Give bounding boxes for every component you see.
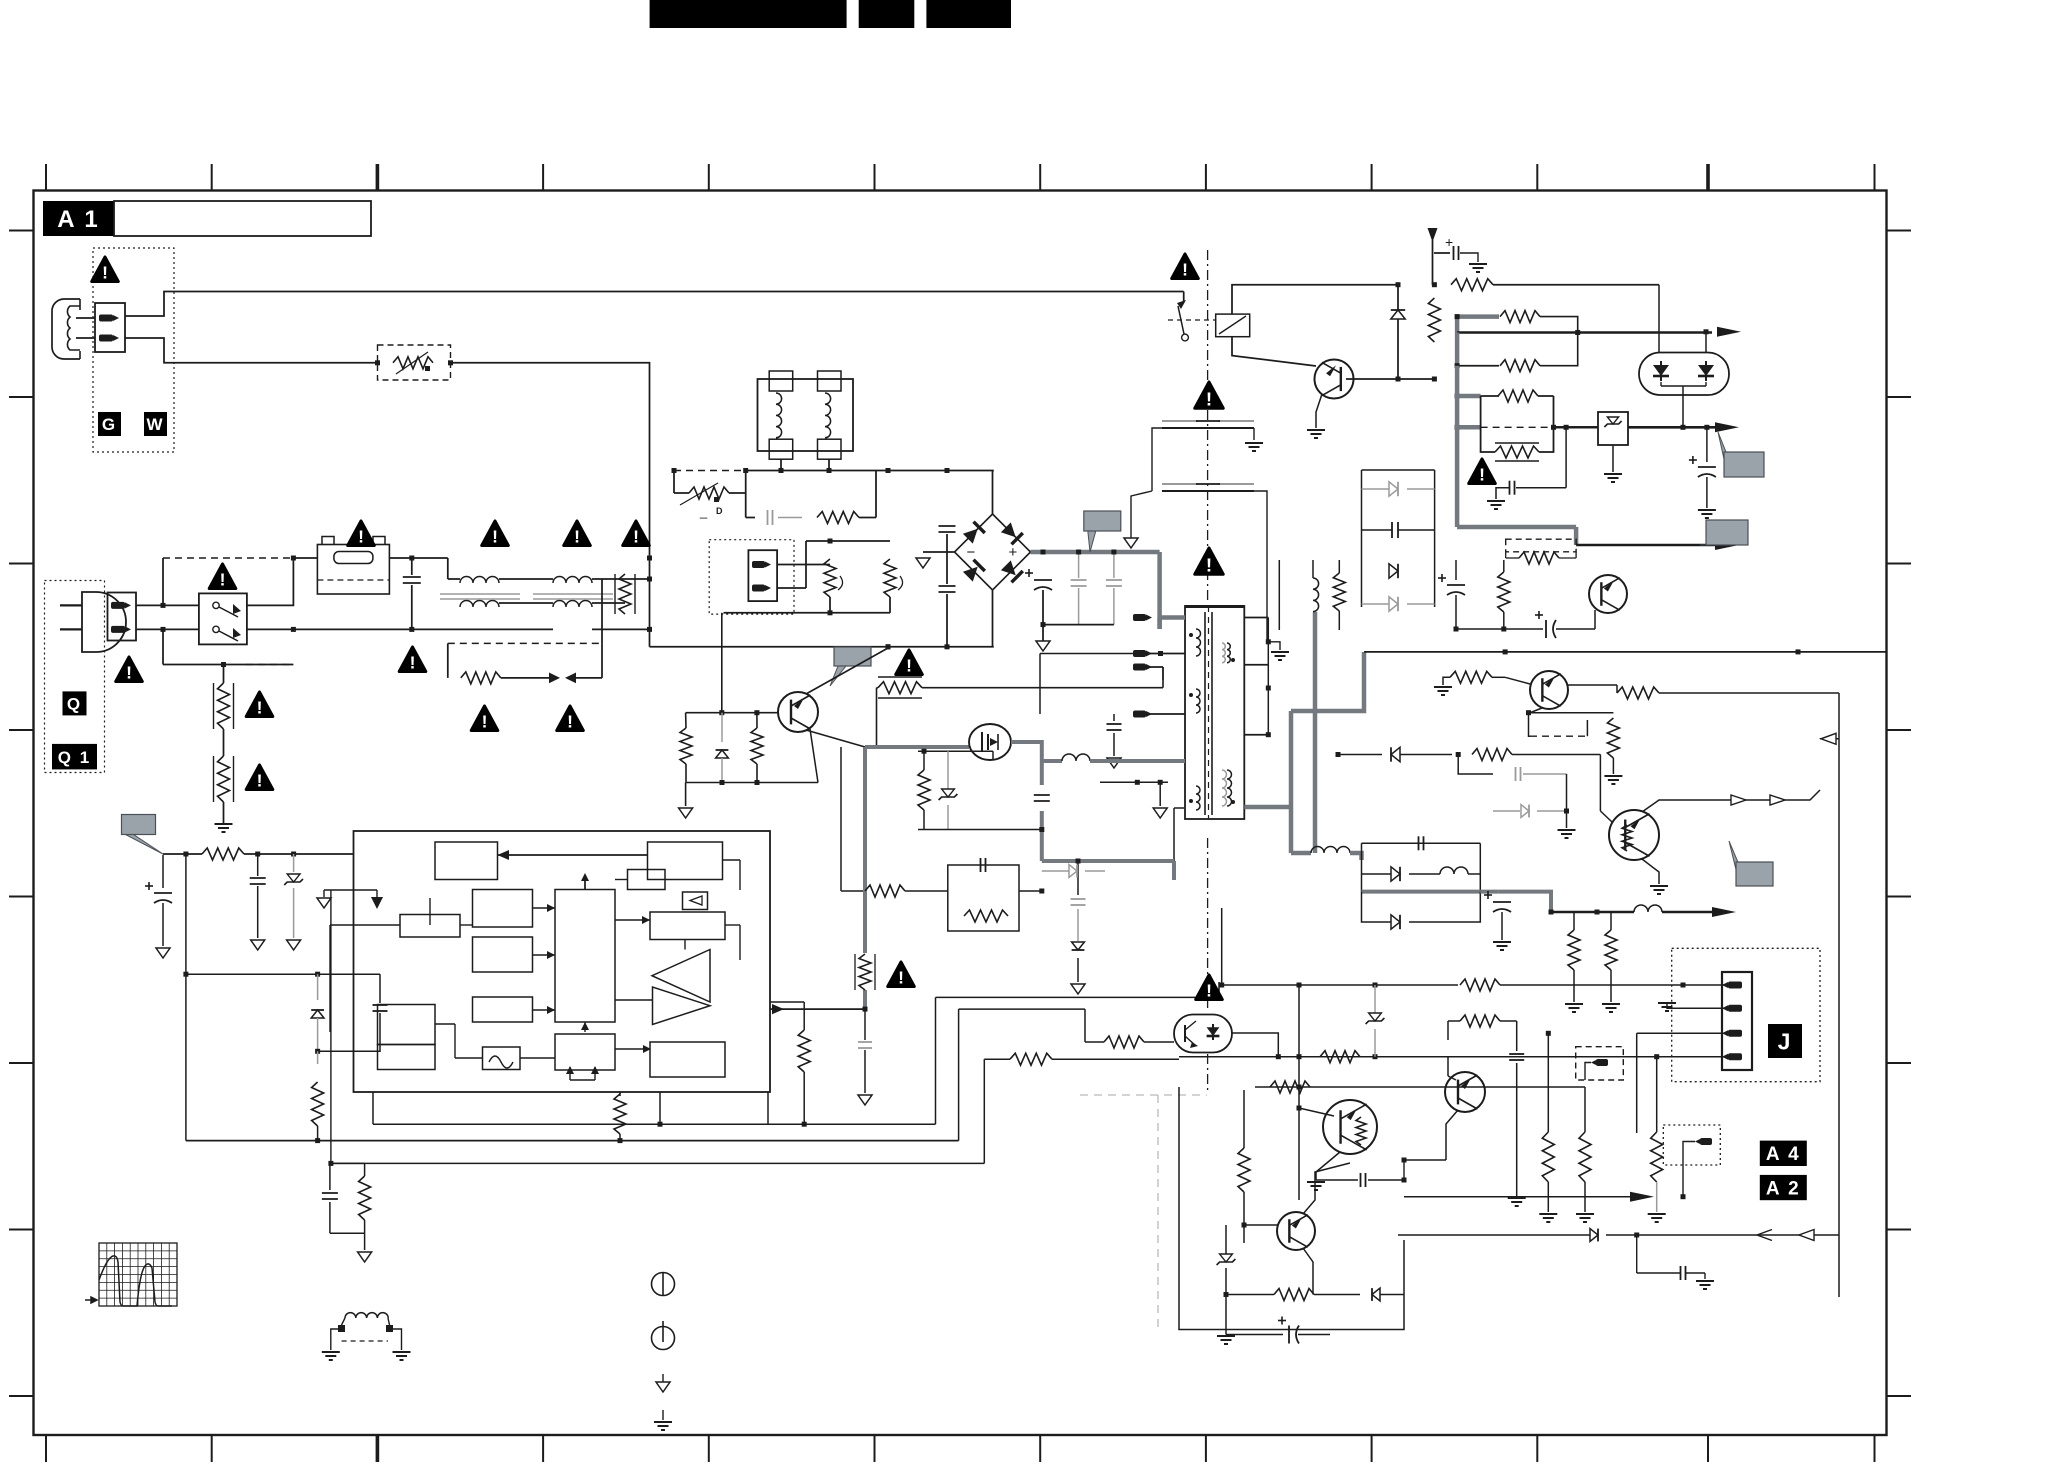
out arrows mid right — [1731, 795, 1746, 805]
Q2 drain thick path — [1011, 742, 1042, 761]
standby switch contact — [1177, 300, 1186, 309]
bridge minus stub — [923, 551, 955, 553]
warning triangle regulator — [1469, 459, 1496, 484]
aux diode cap chain — [1077, 861, 1079, 895]
Q5 wires — [1599, 755, 1601, 812]
IC pin wires left — [330, 898, 400, 925]
primary bottom rail — [650, 646, 994, 648]
Y-cap 2 on barrier — [1162, 483, 1198, 485]
bottom long rail 1 — [186, 1140, 959, 1142]
label Q1 — [52, 744, 97, 770]
resistor row 2 — [1455, 333, 1460, 366]
oscillogram grid — [99, 1243, 177, 1306]
controller IC U1 outline — [354, 831, 771, 1092]
wire switch pole B — [247, 628, 412, 630]
J dotted box — [1672, 948, 1820, 1081]
ladder stubs — [1340, 469, 1362, 471]
Vcc electrolytic — [162, 855, 164, 888]
degauss connector plug — [95, 303, 125, 352]
T1 secondary thick tap — [1244, 805, 1291, 810]
A4 dotted connector — [1663, 1125, 1720, 1165]
svg-text:!: ! — [1206, 388, 1212, 409]
label Q — [63, 691, 87, 715]
IC blocks left — [473, 890, 533, 928]
bleed resistor PTC2 — [223, 729, 225, 756]
T1 secondary windings — [1222, 643, 1225, 663]
Q collector wire — [1346, 378, 1398, 380]
bridge feed — [993, 471, 995, 515]
bottom common-mode choke — [345, 1313, 388, 1318]
label G — [98, 412, 121, 436]
T1 primary windings — [1196, 629, 1201, 656]
transistor Q6 — [1445, 1072, 1485, 1112]
Q6 collector resistor — [1448, 1020, 1460, 1022]
out cap elect — [1480, 890, 1498, 894]
warning triangle filter 1 — [471, 706, 498, 731]
line filter choke LF1 — [447, 558, 449, 579]
gate drive RC box — [840, 747, 842, 891]
svg-text:G: G — [102, 415, 117, 434]
warning triangle switch — [209, 564, 236, 589]
Q6 emitter down — [1446, 1110, 1458, 1160]
feedback resistor below IC — [614, 1094, 626, 1134]
discharge resistor across line — [619, 574, 631, 614]
svg-text:D: D — [716, 506, 723, 516]
warning triangle barrier mid — [1195, 382, 1224, 408]
IC right blocks — [650, 912, 725, 940]
relay catch diode — [1397, 285, 1399, 295]
T1 right side taps — [1244, 617, 1268, 619]
fuse rail — [163, 557, 293, 559]
warning triangle choke1 — [482, 521, 509, 546]
svg-text:Q: Q — [67, 695, 82, 714]
regulator resistor pair — [1457, 394, 1481, 399]
filter caps on doubler — [946, 471, 948, 525]
transistor Q4 — [1530, 671, 1568, 709]
warning triangle AC inlet — [116, 657, 143, 682]
Q1 collector wire — [806, 648, 888, 694]
warning triangle discharge — [623, 521, 650, 546]
Q2 snubber RC — [918, 750, 993, 752]
J pin2 ground — [1667, 1002, 1728, 1008]
standby rail drop to oval — [1658, 285, 1660, 353]
J connector body — [1722, 972, 1752, 1070]
legend earth — [662, 1410, 664, 1420]
sense thick line — [865, 745, 969, 749]
transistor Q relay-driver — [1315, 360, 1354, 399]
IC bottom pin wire — [659, 1092, 661, 1124]
left vertical feeder — [330, 890, 332, 1163]
cluster outline box — [1179, 1087, 1404, 1330]
warning triangle PTC2 — [246, 765, 273, 790]
x=649 vertical to bottom rail — [647, 556, 652, 561]
aux cap+ horizontal — [1545, 620, 1547, 638]
Q4 emitter — [1529, 708, 1543, 713]
spark gap + resistor — [447, 643, 449, 678]
X-capacitor C1 — [411, 558, 413, 575]
gray flag DC bus — [1088, 531, 1096, 552]
svg-text:A 4: A 4 — [1766, 1144, 1801, 1165]
bus junction dots — [1455, 314, 1460, 319]
T1 left wires — [1146, 617, 1161, 619]
gray flag driver — [830, 666, 846, 686]
snubber ladder box — [1362, 469, 1435, 471]
Q7 wires — [1299, 1108, 1334, 1116]
svg-text:!: ! — [1206, 981, 1212, 1001]
svg-text:!: ! — [257, 698, 263, 718]
out3 thick arrow — [1576, 544, 1715, 547]
svg-text:!: ! — [898, 968, 904, 988]
resistor right tall — [1651, 1132, 1663, 1182]
left arrow feedback — [1820, 738, 1839, 740]
zener cluster — [1220, 1254, 1233, 1262]
optocoupler U2 — [1174, 1015, 1232, 1053]
svg-text:A 1: A 1 — [57, 206, 99, 233]
startup resistor lower — [317, 1051, 319, 1064]
svg-text:+: + — [1445, 234, 1453, 250]
rect network box — [1362, 842, 1481, 844]
lower dashed return rail — [163, 664, 293, 666]
IC right resistor chain — [798, 1030, 810, 1072]
gray flag Vcc rail — [126, 835, 164, 855]
opto right wire — [1232, 1033, 1278, 1057]
Q emitter to ground — [1316, 394, 1322, 428]
cluster right resistors — [1542, 1132, 1554, 1182]
warning triangle choke row 1 — [399, 647, 426, 672]
standby V+ filled arrow — [1428, 228, 1438, 242]
gray flag mid right — [1729, 841, 1748, 886]
rail to J pin1 — [1222, 984, 1458, 986]
startup diode cap loop — [185, 854, 187, 1141]
doubler rail — [674, 470, 746, 472]
wire top rail to switch contact — [1183, 292, 1185, 302]
thick bus vertical main — [1455, 366, 1460, 527]
oval dual diode indicator — [1639, 353, 1729, 396]
dashed aux connector — [1576, 1047, 1624, 1080]
main transformer T1 — [1185, 606, 1244, 819]
mosfet Q2 — [969, 724, 1011, 760]
svg-text:!: ! — [567, 712, 573, 732]
zener block — [1553, 426, 1598, 428]
svg-text:!: ! — [492, 527, 498, 547]
fusible resistor drive line — [878, 682, 922, 694]
A2 out arrow — [1404, 1196, 1630, 1198]
resistor mid cluster — [1238, 1148, 1250, 1192]
IC left chassis bracket — [324, 889, 377, 891]
warning triangle filter 2 — [557, 706, 584, 731]
warning triangle degauss — [92, 257, 119, 282]
J pin4 wire — [1288, 1056, 1728, 1058]
T1 bottom-left return — [1100, 781, 1168, 783]
Vcc rail resistor — [163, 853, 202, 855]
sheet label A1 — [43, 201, 114, 236]
warning triangle opto — [1196, 975, 1223, 1000]
standby transformer T2 — [758, 379, 854, 451]
RC to chassis bottom — [330, 1162, 365, 1164]
title bar blacked-out 2 — [859, 0, 915, 28]
aux electrolytic — [1447, 584, 1465, 586]
line filter choke LF2 — [553, 577, 592, 583]
Y-cap right connection — [1254, 491, 1267, 641]
Vcc zener — [293, 854, 295, 872]
warning triangle barrier low — [1195, 548, 1224, 574]
svg-text:!: ! — [410, 653, 416, 673]
gray cap loop — [1458, 755, 1493, 775]
thermistor bypass — [673, 471, 675, 494]
ground PTC chain — [223, 802, 225, 824]
gray diode stub — [1042, 870, 1069, 872]
relay RL1 coil box — [1216, 314, 1250, 337]
IC bottom blocks — [378, 1005, 436, 1045]
IC internal wires — [498, 854, 648, 856]
return wire bottom — [1398, 1234, 1590, 1236]
wires T2 to rail — [780, 459, 782, 470]
feedback long wire B — [960, 1036, 1099, 1038]
cluster rail top — [1179, 1086, 1255, 1088]
out3 dashed damper — [1506, 539, 1576, 552]
bleed resistor PTC1 — [223, 665, 225, 684]
svg-text:!: ! — [574, 527, 580, 547]
svg-text:Q 1: Q 1 — [58, 748, 91, 767]
mains switch S1 — [199, 593, 247, 644]
T1 snubber cap left — [1113, 714, 1115, 721]
standby rail resistor — [1434, 284, 1448, 286]
thick path lower secondary — [1311, 847, 1350, 854]
warning triangle sense — [888, 962, 915, 987]
degauss dotted enclosure — [93, 248, 174, 452]
aux transistor Q3 — [1589, 575, 1627, 613]
degauss PTC thermistor — [393, 357, 433, 369]
AC plug — [82, 592, 126, 652]
warning triangle PTC1 — [246, 692, 273, 717]
Vcc cap2 — [257, 854, 259, 876]
dashed feedback — [1530, 735, 1587, 737]
bus out1 arrow line — [1457, 331, 1712, 334]
degauss PTC dashed box — [378, 345, 451, 380]
resistor bottoms join — [724, 612, 891, 614]
gray cap C7 — [1113, 552, 1115, 578]
label A4 — [1760, 1141, 1807, 1166]
svg-text:!: ! — [358, 527, 364, 547]
power transistor Q1 switch — [778, 692, 818, 732]
legend circle neutral — [652, 1327, 675, 1350]
transistor Q8 — [1277, 1212, 1315, 1250]
label J — [1768, 1024, 1802, 1058]
T1 pin pads left — [1133, 614, 1146, 621]
label W — [144, 412, 167, 436]
thick to out4 — [1499, 892, 1551, 912]
aux resistor — [1498, 572, 1510, 612]
svg-text:!: ! — [102, 263, 108, 283]
title bar blacked-out 3 — [926, 0, 1011, 28]
resistor to gnd right — [1607, 718, 1619, 758]
standby connector — [748, 550, 777, 601]
degauss coil L-deg — [52, 299, 80, 359]
base drive network — [686, 712, 779, 714]
bleed resistors to gnd — [1568, 930, 1580, 970]
staircase rail B — [372, 1092, 374, 1124]
wire fuse to filter — [389, 557, 448, 559]
frame tick marks — [45, 164, 47, 191]
gray zener on feedback — [1374, 985, 1376, 1013]
svg-text:!: ! — [1206, 554, 1212, 575]
opto left wire — [1144, 1036, 1174, 1038]
degauss wire top rail — [125, 292, 1184, 317]
warning triangle barrier top — [1172, 254, 1199, 279]
wire y1057 — [1179, 1056, 1320, 1058]
Q8 emitter resistor — [1303, 1248, 1313, 1295]
cap on out2 — [1706, 427, 1708, 462]
transistor Q5 darlington — [1609, 810, 1659, 860]
AC connector — [108, 593, 137, 641]
reservoir cap C5 — [1042, 552, 1044, 576]
wire N to choke — [412, 628, 460, 630]
IC comparators — [652, 950, 710, 1003]
J pin3 wire — [1637, 1032, 1728, 1034]
legend circle live — [652, 1273, 675, 1296]
aux snubber L — [1278, 560, 1280, 630]
degauss wire lower rail — [125, 338, 378, 363]
legend chassis — [662, 1374, 664, 1382]
warning triangle driver — [896, 650, 923, 675]
staircase rail A to opto — [958, 1009, 960, 1141]
aux snubber R — [1333, 573, 1345, 611]
out2 arrow — [1628, 426, 1715, 429]
relay dropper resistor — [1428, 298, 1440, 342]
T1 tap ground — [1268, 642, 1280, 650]
gray dashed boundary — [1080, 1094, 1207, 1096]
cap to gnd far right — [1680, 1266, 1682, 1280]
gray cap C6 — [1078, 552, 1080, 578]
svg-text:!: ! — [126, 663, 132, 683]
Q8 collector up — [1303, 1163, 1350, 1214]
svg-text:!: ! — [482, 712, 488, 732]
isolation barrier dash-dot line — [1207, 250, 1209, 601]
fusible resistor — [1481, 426, 1554, 428]
dashed choke module outline — [448, 642, 602, 644]
Q6 collector resistor net — [1403, 1196, 1405, 1240]
oval bottom tap — [1682, 386, 1684, 427]
svg-text:J: J — [1778, 1028, 1793, 1054]
wire switch pole A up — [247, 558, 294, 605]
Q1 emitter wire — [806, 730, 865, 747]
title bar blacked-out 1 — [650, 0, 847, 28]
gray diode to gnd — [1493, 810, 1520, 812]
svg-text:A 2: A 2 — [1766, 1178, 1801, 1199]
main DC bus from bridge — [1031, 550, 1160, 555]
wire AC L — [136, 604, 199, 606]
RC damper row — [745, 493, 747, 518]
cap column — [1516, 1021, 1518, 1051]
svg-text:!: ! — [1479, 465, 1485, 485]
aux rail long — [1364, 651, 1886, 653]
svg-text:!: ! — [633, 527, 639, 547]
IC inner block row1 — [435, 842, 498, 880]
diode feedback row — [1338, 754, 1382, 756]
flag out3 — [1700, 544, 1718, 546]
svg-text:−: − — [967, 544, 976, 561]
cluster ecap — [1225, 1295, 1227, 1335]
fuse F1 — [317, 545, 389, 595]
IC tall center block — [555, 890, 615, 1023]
sense chain lower — [864, 1009, 866, 1040]
svg-text:_: _ — [699, 504, 708, 519]
T1 primary return wires — [1040, 653, 1146, 655]
drive wire IC to switch — [770, 1008, 865, 1010]
standby cap to ground — [1433, 252, 1456, 254]
aux base resistor — [1450, 671, 1492, 683]
flag out2 — [1718, 432, 1736, 477]
bridge rectifier D1 — [955, 514, 1031, 590]
current sense resistor — [859, 954, 871, 990]
warning triangle fuse — [348, 521, 375, 546]
relay dashed link — [1168, 319, 1216, 321]
svg-text:W: W — [146, 415, 164, 434]
adjustable resistor VR2 — [777, 587, 806, 589]
relay wires — [1232, 285, 1398, 314]
svg-text:+: + — [1009, 544, 1018, 561]
thick bus output 1 — [1455, 317, 1460, 333]
svg-text:!: ! — [906, 656, 912, 676]
cap bank bottom rail — [1043, 624, 1114, 626]
svg-text:!: ! — [220, 570, 226, 590]
svg-text:!: ! — [257, 771, 263, 791]
choke interstage wires — [459, 579, 461, 583]
transistor Q7 big — [1323, 1100, 1377, 1154]
Q7 base cap — [1360, 1173, 1362, 1187]
dotted connector box standby — [709, 540, 794, 614]
staircase rail C — [331, 1162, 984, 1164]
wire AC N — [136, 628, 199, 630]
AC inlet dotted enclosure — [45, 581, 105, 773]
svg-text:!: ! — [1182, 260, 1188, 280]
Q4 collector resistor — [1568, 684, 1617, 686]
border frame — [34, 191, 1887, 1436]
vertical link AC to fuse rail — [162, 558, 164, 605]
label A2 — [1760, 1175, 1807, 1200]
wire degauss to filter — [451, 363, 650, 647]
Y-cap 1 on barrier — [1162, 420, 1198, 422]
warning triangle choke2 — [564, 521, 591, 546]
adjustable resistor VR1 — [777, 564, 830, 566]
cap to out junction — [1509, 481, 1511, 495]
